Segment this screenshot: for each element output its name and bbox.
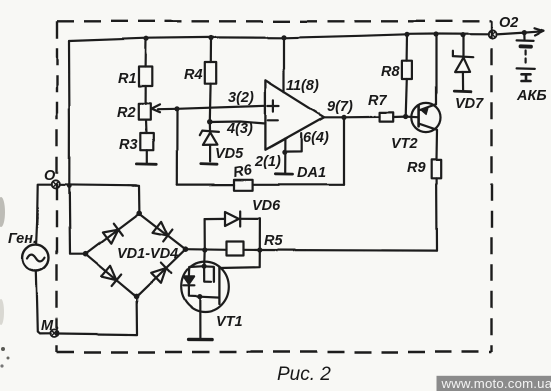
diode VD2 (top-right arm) [153, 221, 168, 235]
svg-text:9(7): 9(7) [327, 99, 353, 115]
svg-text:R3: R3 [119, 137, 138, 153]
wire R2-R3 [144, 120, 147, 133]
svg-text:VD5: VD5 [215, 146, 244, 162]
node bridge left [83, 251, 89, 257]
wire R1-R2 [145, 86, 147, 103]
wire: M terminal to bridge bottom [58, 297, 137, 335]
transistor VT1 body circle [181, 262, 229, 312]
resistor R6 [234, 180, 253, 191]
resistor R7 [380, 112, 394, 121]
node VT1 gate internal [202, 264, 207, 269]
watermark bar [437, 376, 551, 391]
svg-text:VT2: VT2 [391, 136, 418, 152]
op-amp pin 2(1) lead to ground [284, 139, 286, 173]
resistor R4 lead [210, 38, 212, 63]
generator G1 circle [23, 245, 49, 271]
diode VD3 (bottom-left arm) [101, 265, 116, 279]
wire: R7 to VT2 base [393, 115, 417, 118]
node bridge right [183, 246, 189, 252]
junction feedback / wiper wire [174, 106, 179, 111]
junction R4 top rail [208, 35, 213, 40]
svg-text:www.moto.com.ua: www.moto.com.ua [441, 376, 551, 391]
wire: top supply rail [69, 34, 488, 41]
resistor R5 [227, 242, 244, 256]
wire: op-amp output to R7 [324, 116, 379, 119]
svg-text:R1: R1 [118, 71, 137, 87]
VT2 collector line [419, 124, 437, 160]
resistor R8 lead [406, 34, 409, 60]
svg-text:Рис. 2: Рис. 2 [277, 364, 331, 385]
node VT1 source internal [197, 294, 202, 299]
wire: generator to M terminal [36, 271, 51, 333]
resistor R1 chain lead [145, 38, 148, 66]
wire R4 to node [209, 84, 212, 121]
svg-text:VD1-VD4: VD1-VD4 [117, 246, 178, 262]
node pin 2 / pin 6 [282, 150, 287, 155]
svg-text:R9: R9 [407, 160, 426, 176]
junction VT2 emitter top rail [433, 31, 438, 36]
resistor R1 [139, 67, 152, 87]
wire: R6 to output vertical [253, 184, 344, 186]
zener VD7 [452, 51, 473, 58]
battery AKB plates [523, 33, 525, 40]
resistor R3 [140, 133, 153, 150]
dashed border frame [57, 21, 492, 352]
wire: feedback from bottom rail [176, 109, 178, 185]
diode VD4 (bottom-right arm) [151, 268, 166, 283]
wire: R2 wiper to op-amp + input [158, 106, 266, 109]
svg-text:VT1: VT1 [216, 314, 243, 330]
wire: bridge right to R5 node [186, 248, 227, 251]
node VT1 gate / R5 left [202, 247, 207, 252]
ground under VT1 [189, 338, 212, 342]
terminal O2 [488, 30, 496, 38]
diode VD6 bypass loop [204, 219, 206, 250]
potentiometer R2 [139, 103, 151, 119]
op-amp plus sign [268, 100, 279, 111]
zener VD7 lead [462, 35, 464, 56]
wire: VT1 source to ground [199, 297, 201, 338]
svg-text:4(3): 4(3) [226, 121, 253, 137]
wire: node to op-amp - input [210, 122, 266, 124]
node op-amp output [341, 115, 346, 120]
resistor R9 [432, 159, 442, 177]
bridge VD1-VD4 edges [85, 213, 139, 254]
svg-text:2(1): 2(1) [254, 154, 281, 170]
ground under op-amp [275, 173, 292, 176]
VT2 emitter arrowhead [421, 108, 429, 114]
op-amp pin 6(4) lead [285, 134, 301, 153]
junction R1 top rail [143, 36, 148, 41]
svg-text:R4: R4 [184, 67, 203, 83]
wire: bottom rail to R6 [177, 184, 234, 186]
generator sine symbol [28, 255, 46, 262]
R2 wiper arrow [151, 104, 160, 112]
node bridge bottom [134, 294, 140, 300]
resistor R4 [205, 63, 216, 85]
svg-text:R2: R2 [117, 105, 136, 121]
transistor VT1 lead from gate node [203, 250, 206, 266]
terminal O [52, 180, 60, 188]
svg-text:DA1: DA1 [297, 165, 326, 181]
ground under VD5 [201, 162, 217, 165]
zener VD5 [209, 122, 211, 130]
VT1 internal: source stub [200, 296, 220, 299]
arrowhead to AKB [535, 28, 544, 35]
wire: rail from O2 terminal to battery arrow [497, 31, 543, 34]
junction battery tap [522, 30, 527, 35]
diode VD1 (top-left arm) [102, 229, 117, 243]
svg-text:VD6: VD6 [252, 198, 281, 214]
svg-text:R5: R5 [264, 233, 283, 249]
svg-text:R7: R7 [368, 93, 387, 109]
wire: VT1 drain to VD6 right node [219, 250, 259, 268]
op-amp DA1 triangle [265, 80, 324, 150]
svg-text:R6: R6 [232, 162, 254, 181]
wire: long run to right vertical [260, 249, 437, 252]
transistor VT2 circle [411, 103, 440, 132]
resistor R8 [402, 61, 412, 79]
wire: O terminal to generator [37, 184, 52, 244]
wire: VT2 emitter to top rail [435, 34, 437, 104]
wire: R8 to base node [406, 79, 407, 116]
junction O wire / left vertical [67, 183, 72, 188]
op-amp pin 11(8) supply lead [283, 38, 285, 92]
node bridge top [136, 211, 142, 217]
VD7 bottom bar [454, 90, 471, 93]
VT2 emitter line to top [419, 104, 436, 110]
VT1 internal: channel bar [218, 267, 220, 304]
junction VD7 top rail [460, 32, 465, 37]
svg-text:M: M [41, 318, 54, 334]
wire: left vertical from top rail to bridge left [69, 41, 85, 254]
svg-text:6(4): 6(4) [303, 130, 329, 146]
junction pin 11 top rail [281, 35, 286, 40]
ground under R3 [136, 162, 156, 165]
wire: output down leg [343, 117, 345, 184]
wire: O terminal to bridge top [60, 184, 140, 213]
scan smudge left edge [0, 197, 10, 368]
svg-text:3(2): 3(2) [228, 90, 254, 106]
svg-text:O2: O2 [499, 15, 518, 31]
VT1 internal: left branch with protection diode [189, 266, 204, 276]
svg-text:11(8): 11(8) [286, 78, 319, 94]
terminal M [51, 329, 59, 337]
node VT1 drain / R5 right [257, 247, 262, 252]
svg-text:O: O [44, 168, 56, 184]
svg-text:R8: R8 [381, 64, 400, 80]
node R4/VD5/inverting input [207, 119, 213, 125]
VT2 base bar [417, 106, 420, 127]
wire: R9 to long bottom run [436, 178, 439, 251]
svg-text:Ген.: Ген. [8, 231, 37, 247]
VT1 internal: centre post and gate [204, 266, 211, 282]
node R7/R8/VT2 base [403, 114, 408, 119]
op-amp minus sign [268, 119, 278, 121]
svg-text:АКБ: АКБ [516, 88, 547, 104]
wire: R5 to right node [244, 249, 260, 251]
svg-text:VD7: VD7 [455, 96, 484, 112]
wire R3 to ground [146, 150, 148, 162]
junction R8 top rail [404, 32, 409, 37]
